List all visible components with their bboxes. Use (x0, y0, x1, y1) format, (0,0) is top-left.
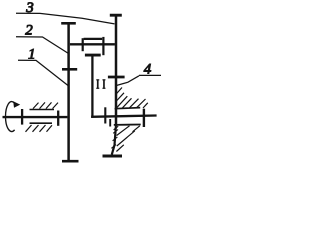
label II (96, 79, 105, 89)
input shaft left collar (21, 109, 23, 125)
input bearing bottom hatching (26, 125, 53, 132)
worm top bar (84, 38, 103, 40)
intermediate axis (horizontal line between shafts) (70, 43, 115, 45)
screw (lower threaded part of shaft 2) (112, 126, 116, 155)
output shaft (bottom-right horizontal) (91, 116, 157, 117)
worm left end tick (82, 38, 84, 51)
leader line for label 4 (116, 75, 161, 85)
shaft 2 (right vertical shaft) (115, 14, 118, 126)
leader line for label 1 (18, 60, 68, 85)
input bearing top hatching (33, 102, 58, 108)
input bearing top line (30, 109, 55, 111)
worm wheel bar on shaft II (85, 54, 101, 57)
screw bottom foot (103, 155, 123, 158)
shaft II (middle vertical stem) (91, 56, 93, 117)
shaft 1 bottom foot (thrust bearing) (62, 160, 79, 163)
leader line for label 3 (16, 13, 115, 24)
gear on shaft 2 (108, 76, 125, 79)
leader line for label 2 (16, 37, 69, 54)
output shaft left collar (104, 107, 106, 123)
output bearing lower hatching (114, 126, 140, 152)
output shaft collar lower jog (109, 119, 111, 127)
svg-text:2: 2 (25, 23, 33, 39)
output bearing bottom line (114, 124, 141, 126)
output shaft right collar (143, 109, 145, 127)
output bearing top line (115, 108, 141, 109)
shaft 1 top cap bar (61, 22, 76, 25)
screw thread ticks (111, 130, 118, 149)
output bearing upper hatching (nut wedge) (116, 88, 148, 109)
rotation arrow arc on input shaft (6, 102, 15, 132)
shaft 2 top cap bar (110, 14, 122, 17)
worm right end tick (102, 37, 104, 55)
shaft 1 (left vertical shaft) (67, 23, 70, 161)
input shaft (bottom-left horizontal) (3, 116, 68, 118)
gear on shaft 1 (62, 68, 77, 71)
input shaft right collar (57, 111, 59, 126)
rotation arrowhead (13, 101, 20, 108)
input bearing bottom line (30, 122, 53, 124)
